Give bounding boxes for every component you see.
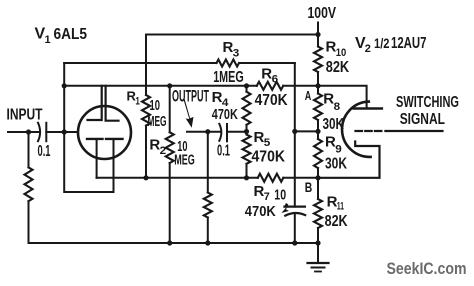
- wire line B left: [64, 62, 216, 64]
- capacitor C2 0.1 curved plate: [219, 124, 221, 141]
- wire R8 top lead: [317, 86, 319, 94]
- node junction: [205, 240, 210, 245]
- node junction: [167, 83, 172, 88]
- resistor R3: [217, 60, 240, 67]
- wire line B right: [239, 62, 295, 64]
- wire input line right: [46, 131, 77, 133]
- svg-text:9: 9: [335, 143, 342, 155]
- node junction: [167, 240, 172, 245]
- node junction: [143, 175, 148, 180]
- V2 envelope arc: [342, 102, 371, 157]
- wire line C left: [64, 85, 257, 87]
- resistor input shunt (unlabeled): [25, 167, 33, 201]
- svg-text:10: 10: [274, 187, 286, 204]
- V1 diode plate 2: [106, 86, 119, 121]
- node junction: [244, 83, 249, 88]
- wire output column lower: [207, 218, 209, 244]
- wire top line A: [146, 34, 318, 36]
- svg-text:OUTPUT: OUTPUT: [172, 87, 209, 105]
- svg-text:12AU7: 12AU7: [391, 35, 427, 52]
- wire cathode line left: [97, 177, 258, 179]
- svg-text:82K: 82K: [326, 59, 350, 76]
- ground bar 1: [308, 262, 329, 264]
- svg-text:SeekIC.com: SeekIC.com: [387, 259, 467, 278]
- wire output column upper: [207, 132, 209, 193]
- V1 diode plate 1: [88, 86, 102, 120]
- svg-text:470K: 470K: [252, 149, 286, 166]
- ground stem: [317, 243, 319, 263]
- svg-text:30K: 30K: [325, 155, 348, 172]
- ground bar 3: [315, 271, 321, 273]
- svg-text:MEG: MEG: [174, 153, 195, 169]
- svg-text:1: 1: [135, 96, 140, 108]
- node junction: [292, 240, 297, 245]
- wire R7 to node B: [283, 177, 318, 179]
- svg-text:7: 7: [264, 191, 270, 203]
- wire ground rail: [29, 242, 319, 244]
- wire R8-R9 link: [317, 120, 319, 139]
- svg-text:10: 10: [150, 97, 161, 114]
- svg-text:100V: 100V: [308, 5, 337, 22]
- V1 cathode bar 1: [87, 138, 103, 140]
- wire R1 column upper: [145, 35, 147, 96]
- svg-text:470K: 470K: [212, 106, 238, 123]
- wire R5 bottom lead: [246, 164, 248, 178]
- node junction: [315, 175, 320, 180]
- capacitor C1 0.1 straight plate: [45, 123, 47, 141]
- node junction: [315, 129, 320, 134]
- svg-text:6AL5: 6AL5: [54, 26, 88, 43]
- resistor R2: [166, 132, 174, 163]
- node junction: [315, 83, 320, 88]
- wire line C right: [283, 85, 318, 87]
- svg-text:6: 6: [272, 74, 279, 86]
- svg-text:0.1: 0.1: [38, 143, 51, 160]
- wire column X down: [294, 63, 296, 207]
- resistor R10: [314, 47, 322, 73]
- resistor R11: [314, 199, 322, 228]
- wire R4 top lead: [246, 86, 248, 92]
- wire R9-R11 link: [317, 168, 319, 199]
- wire C3 bottom lead: [294, 213, 296, 243]
- svg-text:SIGNAL: SIGNAL: [400, 111, 445, 128]
- node junction: [244, 129, 249, 134]
- capacitor C3 10 curved plate: [285, 213, 305, 216]
- wire R10 bottom lead: [317, 72, 319, 86]
- svg-text:3: 3: [233, 47, 240, 59]
- ground bar 2: [312, 267, 325, 269]
- svg-text:SWITCHING: SWITCHING: [396, 94, 459, 111]
- node junction: [205, 129, 210, 134]
- svg-text:11: 11: [337, 200, 344, 212]
- capacitor C3 10 straight plate: [285, 206, 305, 208]
- svg-text:1/2: 1/2: [374, 36, 390, 51]
- resistor R1: [142, 95, 150, 126]
- V2 cathode and lead to node B: [318, 142, 380, 178]
- svg-text:82K: 82K: [325, 213, 349, 230]
- svg-text:B: B: [305, 180, 313, 195]
- V2 grid (dashed): [356, 130, 382, 132]
- svg-text:2: 2: [160, 145, 167, 157]
- node junction: [26, 129, 31, 134]
- wire R2 top lead: [169, 86, 171, 133]
- output arrow: [184, 99, 194, 128]
- svg-text:5: 5: [264, 137, 271, 149]
- resistor R6: [257, 82, 283, 90]
- V1 cathode bar 2: [106, 138, 123, 140]
- svg-text:470K: 470K: [255, 92, 289, 109]
- resistor R8: [314, 94, 322, 121]
- resistor cathode (unlabeled): [204, 193, 212, 218]
- node junction: [244, 175, 249, 180]
- svg-text:0.1: 0.1: [217, 142, 230, 159]
- wire left rail and V1 cathode return: [64, 63, 113, 192]
- wire input shunt bottom lead: [28, 201, 30, 243]
- svg-text:8: 8: [334, 101, 341, 113]
- node junction: [315, 32, 320, 37]
- wire 100V lead: [317, 23, 319, 47]
- svg-text:INPUT: INPUT: [7, 107, 43, 124]
- capacitor C2 0.1 straight plate: [226, 124, 228, 141]
- wire R2 bottom lead: [169, 163, 171, 243]
- node junction: [292, 129, 297, 134]
- tube V1 envelope: [78, 106, 131, 159]
- wire grid link: [295, 130, 318, 132]
- wire output line left: [187, 131, 220, 133]
- node junction: [315, 240, 320, 245]
- wire switching signal line: [385, 130, 442, 132]
- capacitor C1 0.1 curved plate: [38, 123, 40, 142]
- svg-text:470K: 470K: [245, 203, 276, 220]
- resistor R7: [258, 174, 284, 182]
- svg-text:2: 2: [365, 43, 371, 55]
- svg-text:10: 10: [336, 47, 347, 59]
- wire node A to V2 plate: [318, 86, 367, 108]
- svg-text:1: 1: [45, 34, 51, 46]
- svg-text:30K: 30K: [323, 116, 345, 133]
- wire R4-R5 link: [246, 125, 248, 135]
- resistor R9: [314, 139, 322, 168]
- wire R11 bottom lead: [317, 228, 319, 243]
- resistor R5: [243, 135, 251, 164]
- svg-text:A: A: [305, 89, 312, 103]
- wire V1 cathode lead: [96, 140, 98, 178]
- wire input line left: [8, 131, 40, 133]
- wire R1 bottom lead: [145, 126, 147, 178]
- node junction: [62, 129, 67, 134]
- cap 10 arrow: [281, 203, 289, 213]
- wire output line right: [227, 131, 247, 133]
- svg-text:1MEG: 1MEG: [213, 69, 244, 86]
- node junction: [62, 83, 67, 88]
- svg-text:MEG: MEG: [148, 114, 167, 130]
- resistor R4: [243, 92, 251, 125]
- V2 plate bar: [354, 107, 382, 109]
- wire input shunt top lead: [28, 132, 30, 167]
